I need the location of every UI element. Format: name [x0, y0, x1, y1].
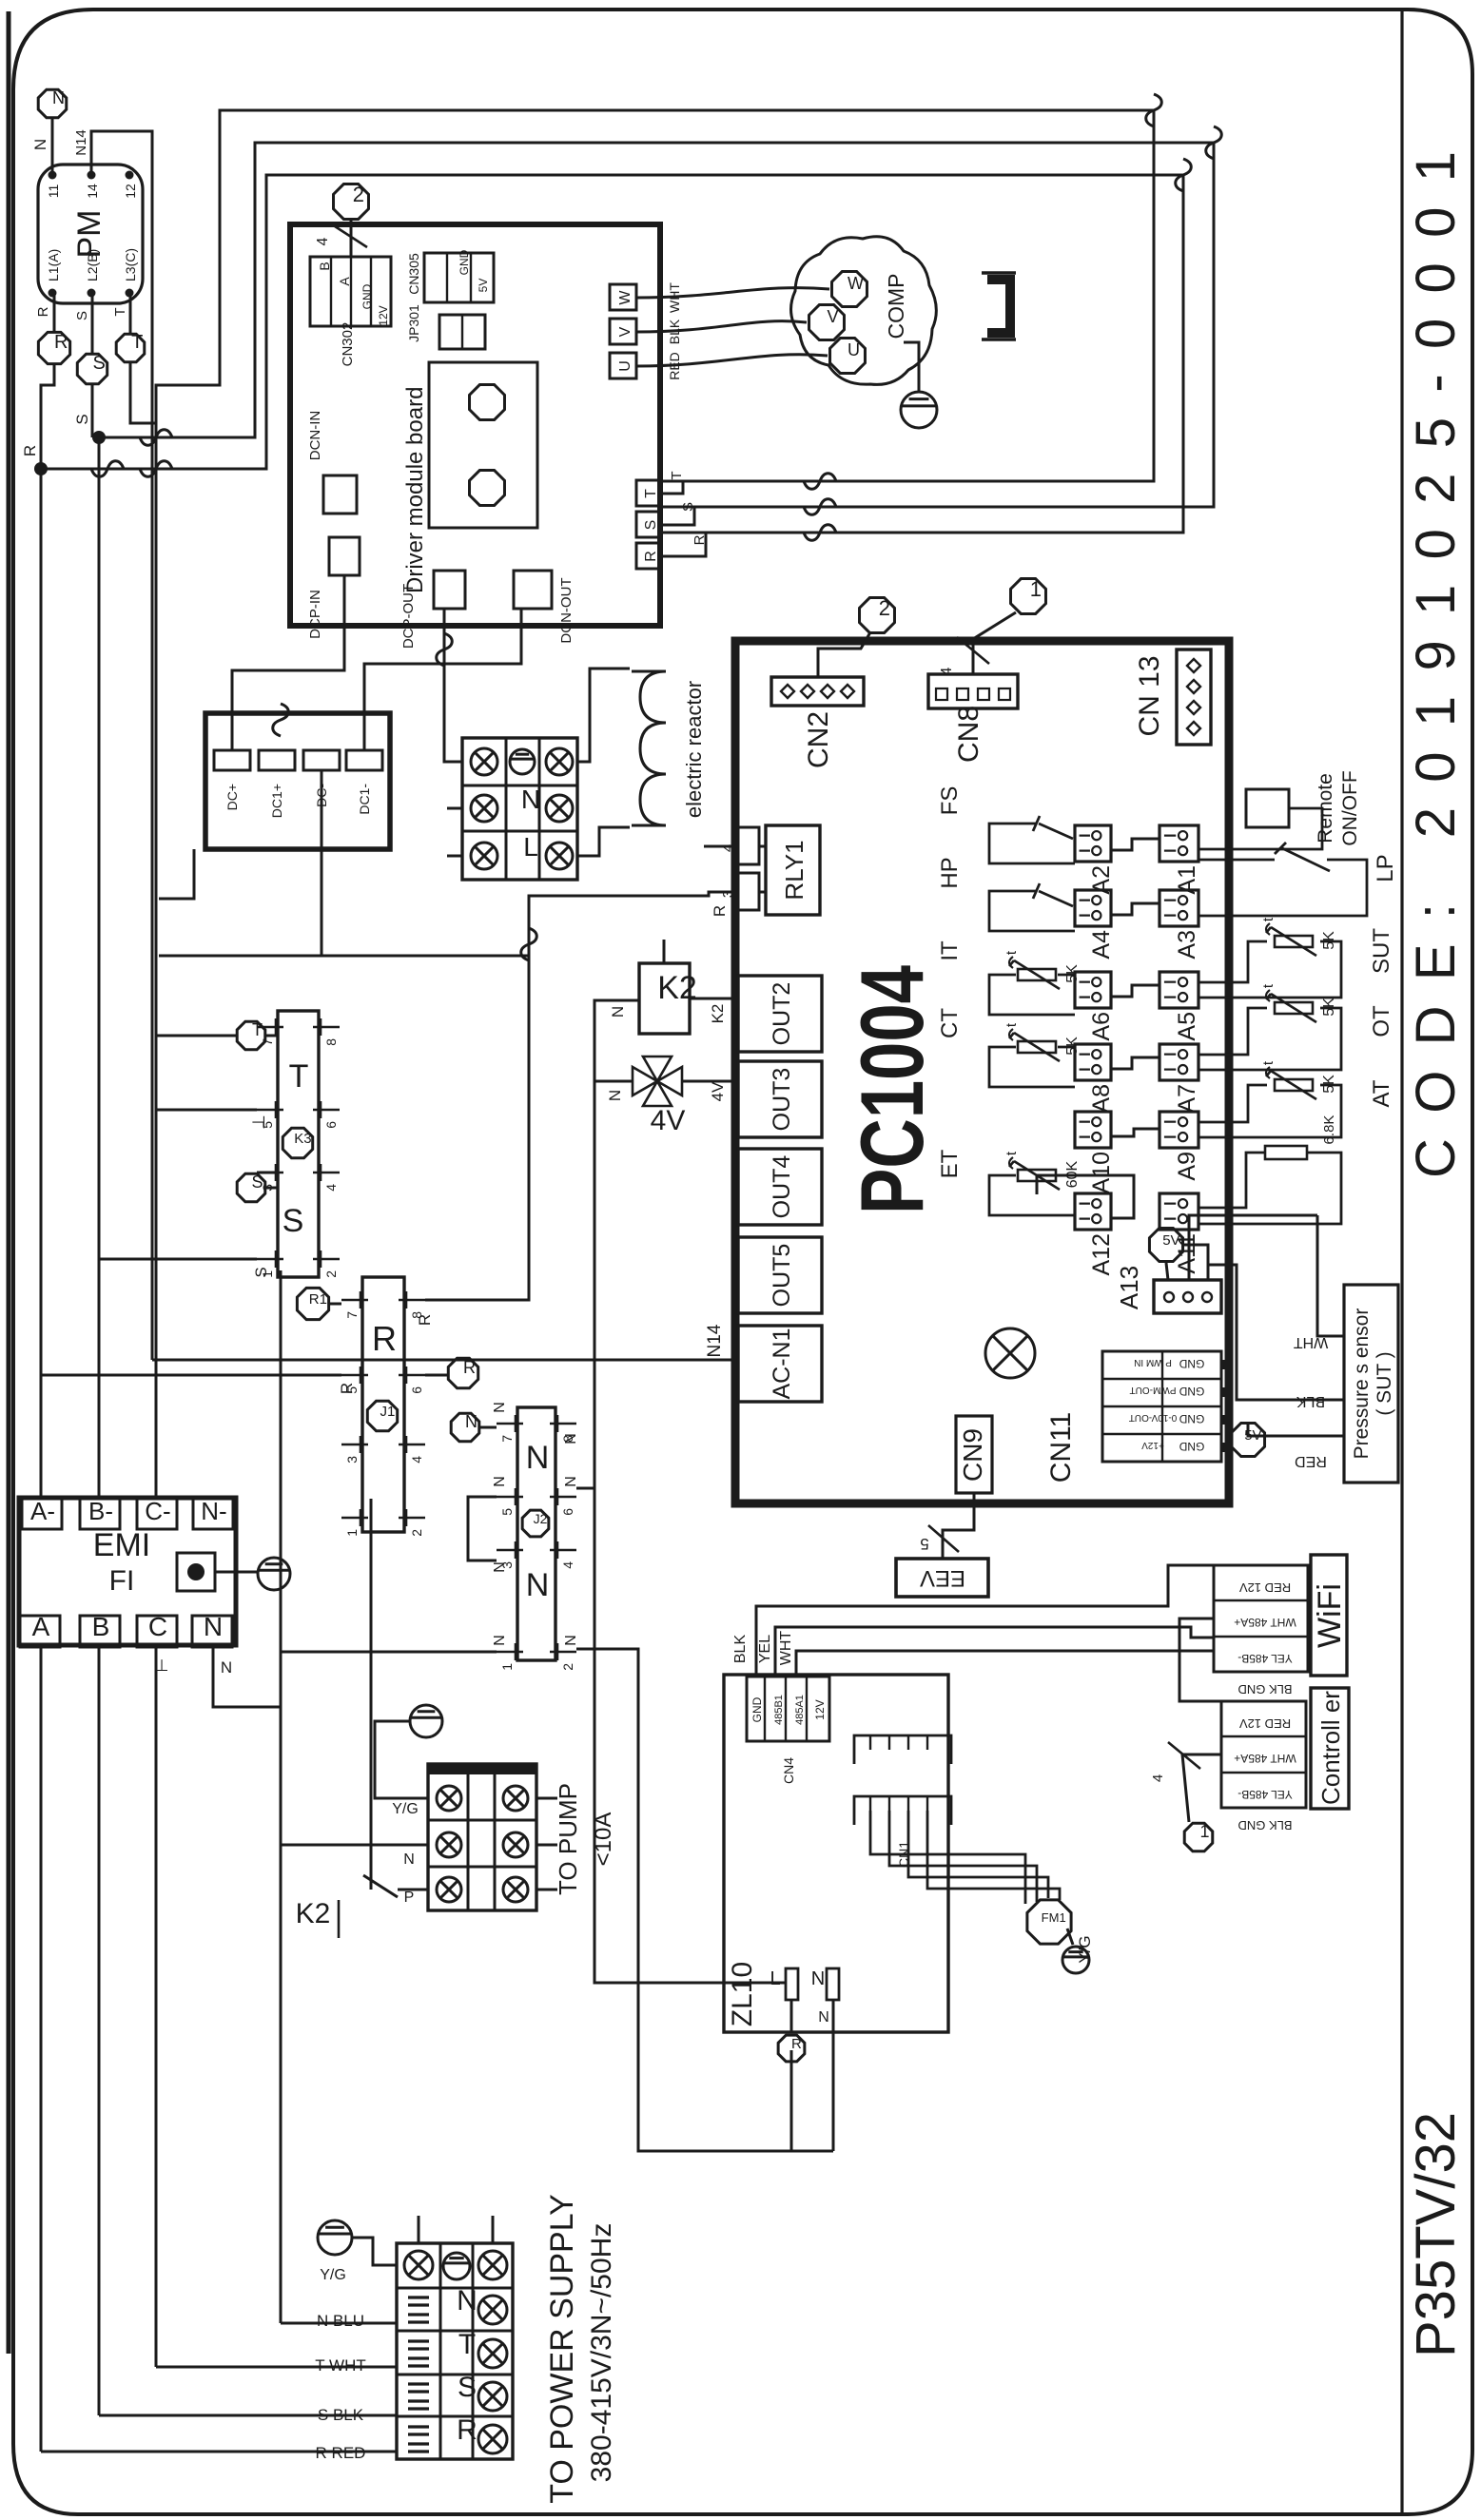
svg-text:⊥: ⊥ — [155, 1657, 169, 1675]
svg-text:4: 4 — [939, 667, 955, 675]
EMI terminal C — [137, 1612, 177, 1647]
wire CN8 to node1 — [939, 612, 1016, 675]
wire S BLK — [99, 2406, 397, 2424]
svg-text:N-: N- — [201, 1497, 226, 1525]
wire R pin5 — [41, 1375, 356, 1394]
terminal DCN-IN — [307, 411, 357, 514]
wire S bus — [73, 384, 106, 2415]
connector CN13 — [1177, 649, 1211, 745]
svg-text:485B1: 485B1 — [773, 1695, 785, 1725]
wire R to pin3 — [599, 892, 738, 917]
svg-text:CN2: CN2 — [803, 711, 834, 768]
svg-text:CN4: CN4 — [781, 1757, 796, 1784]
svg-text:P WM IN: P WM IN — [1134, 1357, 1172, 1367]
label S wire — [680, 502, 696, 512]
svg-text:6: 6 — [560, 1508, 575, 1516]
DC terminal DC1- — [346, 750, 382, 815]
EMI terminal A — [20, 1612, 60, 1647]
svg-text:1: 1 — [1199, 1822, 1209, 1841]
WiFi box — [1311, 1555, 1348, 1676]
svg-text:PWM-OUT: PWM-OUT — [1130, 1385, 1177, 1395]
svg-text:OUT3: OUT3 — [769, 1068, 795, 1132]
wire N14 from PM-14 — [73, 129, 152, 1360]
wire T coil — [266, 1035, 278, 1037]
svg-text:12V: 12V — [377, 305, 390, 325]
wire N pin2 long — [576, 1649, 833, 2151]
svg-text:C-: C- — [145, 1497, 170, 1525]
svg-text:5K: 5K — [1064, 1037, 1081, 1056]
thermistor CT — [937, 1008, 1081, 1087]
wire 4V N side — [594, 1081, 633, 1101]
symbol lamp — [985, 1328, 1035, 1378]
connector A12 — [1075, 1193, 1115, 1275]
svg-text:R: R — [416, 1314, 434, 1326]
text Remote ON/OFF — [1315, 770, 1361, 845]
EMI terminal A- — [22, 1497, 62, 1529]
connector A13 — [1154, 1280, 1221, 1313]
wire N pin5 loop — [468, 1497, 497, 1560]
svg-text:P: P — [404, 1890, 415, 1906]
label WHT — [667, 282, 682, 313]
svg-text:EEV: EEV — [920, 1565, 965, 1591]
label N pump — [403, 1851, 415, 1868]
svg-text:WHT 485A+: WHT 485A+ — [1234, 1752, 1296, 1765]
wire jog on N bus — [273, 704, 289, 736]
svg-text:DCP-IN: DCP-IN — [307, 590, 323, 639]
resistor 6.8K — [1198, 1115, 1341, 1224]
wire T bus — [130, 363, 156, 2367]
svg-text:Y/G: Y/G — [392, 1801, 419, 1817]
svg-text:( SUT ): ( SUT ) — [1374, 1351, 1395, 1415]
svg-text:YEL 485B-: YEL 485B- — [1237, 1652, 1293, 1665]
power module box — [429, 362, 537, 528]
text N relay — [526, 1440, 550, 1476]
output OUT5 — [738, 1237, 822, 1313]
svg-text:B: B — [317, 262, 332, 270]
wire pin5 up — [156, 1109, 257, 1112]
svg-text:WHT: WHT — [1294, 1334, 1329, 1350]
EMI terminal N- — [193, 1497, 233, 1529]
svg-text:RED 12V: RED 12V — [1239, 1716, 1292, 1731]
label CN305 — [406, 253, 421, 295]
wire DC- out — [159, 770, 529, 956]
svg-text:N14: N14 — [73, 129, 89, 156]
svg-text:T: T — [289, 1058, 309, 1095]
label K2 pin — [709, 1004, 727, 1024]
wire N14 down to AC-N1 — [152, 1324, 736, 1360]
svg-text:N: N — [403, 1851, 415, 1868]
label T below EMI — [155, 1657, 169, 1675]
svg-text:CN 13: CN 13 — [1134, 655, 1165, 736]
wire W to COMP — [636, 288, 829, 298]
connector A5 — [1159, 972, 1200, 1041]
svg-text:S: S — [93, 353, 106, 374]
svg-text:CN8: CN8 — [953, 706, 984, 763]
title strip divider — [1400, 10, 1403, 2513]
svg-text:L: L — [770, 1968, 780, 1989]
label A13 — [1115, 1266, 1143, 1309]
svg-text:6: 6 — [409, 1386, 424, 1394]
label CN2 — [803, 711, 834, 768]
svg-text:L: L — [523, 832, 538, 862]
octagon J1 — [367, 1401, 397, 1430]
svg-text:R RED: R RED — [316, 2444, 366, 2462]
connector CN2 — [771, 677, 864, 706]
svg-text:S: S — [283, 1203, 304, 1239]
svg-text:A13: A13 — [1115, 1266, 1143, 1309]
node 2 octagon cn2 — [860, 596, 895, 632]
COMP ground wire — [904, 342, 919, 392]
svg-text:DC1+: DC1+ — [269, 784, 284, 818]
svg-text:W: W — [848, 274, 864, 293]
wire DC1- feed — [364, 609, 521, 750]
svg-text:3: 3 — [344, 1456, 360, 1464]
svg-text:485A1: 485A1 — [794, 1695, 806, 1725]
octagon K3 — [283, 1128, 312, 1157]
label CN4 — [781, 1757, 796, 1784]
svg-text:PC1004: PC1004 — [842, 965, 942, 1214]
svg-text:P35TV/32: P35TV/32 — [1405, 2112, 1467, 2357]
node R octagon zl — [778, 2035, 805, 2062]
terminal block L N — [462, 738, 577, 880]
svg-text:ON/OFF: ON/OFF — [1339, 770, 1361, 845]
COMP pin V — [809, 305, 845, 340]
wire EMI cap to ground — [215, 1571, 258, 1574]
output OUT3 — [738, 1061, 822, 1137]
text 380-415V 3N 50Hz — [586, 2223, 617, 2483]
svg-text:DC+: DC+ — [224, 784, 240, 810]
svg-text:R: R — [372, 1319, 397, 1358]
connector A6 — [1075, 972, 1115, 1041]
svg-text:CT: CT — [937, 1008, 963, 1038]
wire A8 row link — [1111, 1057, 1159, 1069]
power block labels — [443, 2253, 477, 2446]
connector CN9 — [956, 1416, 992, 1493]
wire BLK 485 — [756, 1565, 1214, 1677]
svg-text:OT: OT — [1369, 1005, 1394, 1037]
svg-text:DCP-OUT: DCP-OUT — [400, 584, 417, 649]
svg-text:RED 12V: RED 12V — [1239, 1580, 1292, 1595]
label CN1 — [896, 1841, 911, 1868]
svg-text:FI: FI — [109, 1565, 135, 1597]
svg-text:R: R — [643, 551, 659, 562]
thermistor IT — [937, 940, 1081, 1015]
DC terminal DC- — [303, 750, 340, 807]
svg-text:EMI: EMI — [93, 1527, 150, 1563]
svg-text:COMP: COMP — [884, 274, 908, 339]
wire CN1 FM1 c — [908, 1811, 1048, 1898]
connector CN1 — [854, 1796, 951, 1825]
terminal block TO POWER SUPPLY — [397, 2243, 513, 2459]
svg-text:N: N — [521, 785, 540, 814]
terminal S drv — [636, 512, 661, 537]
wire A13 pins — [1166, 1215, 1317, 1280]
text TO POWER SUPPLY — [544, 2194, 580, 2504]
labels N around — [492, 1402, 579, 1646]
title text P35TV/32 — [1405, 2112, 1467, 2357]
svg-text:12: 12 — [123, 184, 138, 199]
svg-text:N: N — [204, 1612, 223, 1641]
svg-text:5: 5 — [920, 1535, 928, 1553]
svg-text:S: S — [458, 2372, 477, 2403]
svg-text:R: R — [21, 445, 39, 456]
svg-text:RED: RED — [1295, 1453, 1327, 1469]
EMI filter box — [19, 1498, 236, 1645]
terminal DCP-IN — [307, 537, 360, 639]
pressure sensor box — [1344, 1285, 1398, 1483]
wire K2 N side — [594, 1000, 786, 1983]
wire A4 row link — [1111, 903, 1159, 915]
label R pin8 — [416, 1314, 434, 1326]
svg-text:R: R — [711, 905, 729, 917]
svg-text:N: N — [31, 139, 49, 150]
LN screws — [471, 748, 573, 869]
EMI cap box — [177, 1553, 215, 1591]
svg-text:GND: GND — [1179, 1440, 1204, 1453]
svg-text:R: R — [54, 332, 68, 353]
svg-text:S: S — [74, 311, 90, 320]
ground symbol pump — [410, 1705, 442, 1737]
svg-text:CN305: CN305 — [406, 253, 421, 295]
label Y/G pump — [392, 1801, 419, 1817]
label JP301 — [406, 304, 421, 342]
clamp mark — [408, 2427, 429, 2452]
svg-text:DCN-IN: DCN-IN — [307, 411, 323, 461]
svg-text:4: 4 — [323, 1184, 339, 1192]
relay K2 — [639, 963, 697, 1034]
wire N pin6 link — [576, 1487, 594, 1490]
EMI terminal B- — [80, 1497, 120, 1529]
DC terminal DC+ — [214, 750, 250, 810]
svg-text:A6: A6 — [1088, 1012, 1115, 1041]
svg-text:N: N — [526, 1440, 550, 1476]
block CN11 — [1102, 1351, 1231, 1462]
svg-text:S: S — [252, 1267, 270, 1277]
switch FS — [937, 786, 1075, 863]
svg-text:L2(B): L2(B) — [85, 249, 100, 281]
output OUT4 — [738, 1149, 822, 1225]
pump stubs — [536, 1798, 557, 1890]
svg-text:GND: GND — [750, 1696, 764, 1722]
wire WHT sensor — [1294, 1215, 1344, 1350]
svg-text:4: 4 — [560, 1561, 575, 1569]
wire rly pins — [704, 846, 766, 892]
wire A10 A9 — [1111, 1129, 1159, 1136]
remote switch box — [1198, 789, 1322, 849]
svg-text:0-10V-OUT: 0-10V-OUT — [1129, 1412, 1178, 1423]
svg-text:2: 2 — [879, 596, 890, 620]
svg-text:BLK: BLK — [1296, 1393, 1326, 1409]
wire CN2 to node2 — [818, 632, 870, 677]
octagon T — [116, 332, 145, 362]
wire S loop — [99, 126, 1221, 514]
svg-text:U: U — [848, 340, 860, 359]
svg-text:N BLU: N BLU — [317, 2312, 364, 2330]
svg-text:T: T — [252, 1020, 263, 1039]
terminal U — [610, 353, 636, 378]
pin 3 rly — [720, 873, 759, 910]
svg-text:S BLK: S BLK — [318, 2406, 364, 2424]
label CN302 — [340, 322, 356, 367]
wire BLK sensor — [1208, 1245, 1344, 1409]
wire S drv — [661, 507, 694, 525]
label BLK — [667, 319, 682, 344]
svg-text:N: N — [492, 1402, 508, 1413]
PM pins L1 L2 L3 — [46, 248, 138, 298]
connector A3 — [1159, 890, 1200, 960]
PM pins 11 14 12 — [46, 171, 138, 199]
wire V to COMP — [636, 321, 807, 332]
svg-text:HP: HP — [937, 857, 963, 888]
node 2 octagon drv — [334, 183, 369, 219]
electric reactor coil — [632, 671, 666, 825]
svg-text:T: T — [669, 471, 685, 479]
svg-text:R: R — [35, 306, 51, 317]
svg-text:K3: K3 — [294, 1131, 311, 1147]
svg-text:2: 2 — [323, 1270, 339, 1278]
svg-text:R: R — [791, 2036, 802, 2052]
svg-text:A: A — [32, 1612, 50, 1641]
label 4V pin — [709, 1081, 727, 1101]
node N circle — [38, 88, 67, 118]
connector CN4 strip — [747, 1677, 829, 1741]
svg-text:JP301: JP301 — [406, 304, 421, 342]
R pins — [341, 1291, 425, 1537]
svg-text:FM1: FM1 — [1042, 1910, 1066, 1925]
wire wifi down — [1179, 1619, 1237, 1701]
clamp mark — [408, 2384, 429, 2409]
wire U to COMP — [636, 355, 828, 366]
T S pins — [257, 1018, 340, 1278]
output OUT2 — [738, 976, 822, 1052]
svg-text:+12V: +12V — [1141, 1440, 1164, 1450]
wire node2 to CN302 — [315, 221, 367, 257]
svg-text:RLY1: RLY1 — [780, 840, 809, 900]
label CN11 — [1045, 1412, 1077, 1483]
label CN13 — [1134, 655, 1165, 736]
svg-text:TO POWER SUPPLY: TO POWER SUPPLY — [544, 2194, 580, 2504]
wire DC corner — [159, 849, 194, 899]
terminal block TO PUMP — [428, 1764, 536, 1910]
text Driver module board — [402, 387, 428, 593]
node 5V octagon 2 — [1231, 1423, 1264, 1456]
label gnd T5 — [249, 1115, 268, 1130]
relay RLY1 — [766, 825, 820, 915]
label BLK GND wifi — [1237, 1682, 1292, 1696]
svg-text:N: N — [563, 1433, 579, 1444]
octagon R — [38, 332, 69, 364]
svg-text:7: 7 — [499, 1435, 515, 1443]
svg-text:8: 8 — [323, 1038, 339, 1046]
phase monitor PM box — [38, 165, 143, 303]
label WHT zl — [778, 1631, 794, 1666]
wire fuse N out — [818, 2000, 833, 2151]
wire S coil — [257, 1173, 278, 1188]
svg-text:IT: IT — [937, 940, 963, 961]
label RED — [667, 352, 682, 380]
output AC-N1 — [738, 1326, 822, 1402]
octagon R1 — [297, 1288, 328, 1319]
svg-text:WHT: WHT — [778, 1631, 794, 1666]
wire ctrl 485 — [1150, 1742, 1221, 1822]
ground symbol EMI — [258, 1558, 290, 1590]
svg-text:A4: A4 — [1088, 930, 1115, 960]
clamp mark — [408, 2341, 429, 2366]
controller cell box — [1221, 1701, 1306, 1808]
svg-text:4V: 4V — [709, 1081, 727, 1101]
connector CN305 — [424, 249, 494, 302]
N pins — [497, 1415, 576, 1671]
connector A8 — [1075, 1044, 1115, 1114]
label 4V — [651, 1105, 686, 1136]
svg-text:V: V — [617, 326, 633, 337]
svg-text:electric reactor: electric reactor — [682, 681, 706, 818]
svg-text:T: T — [131, 332, 143, 353]
svg-text:R: R — [457, 2414, 477, 2446]
svg-text:A9: A9 — [1174, 1152, 1200, 1181]
svg-text:N: N — [563, 1476, 579, 1487]
svg-text:DC1-: DC1- — [357, 784, 372, 815]
svg-text:T: T — [643, 489, 659, 498]
COMP ground symbol — [901, 392, 937, 428]
svg-text:AT: AT — [1369, 1079, 1394, 1107]
wire N bus — [213, 1270, 281, 2323]
svg-text:<10A: <10A — [591, 1812, 616, 1867]
title text CODE: 20191025-0001 — [1405, 151, 1467, 1178]
LN labels — [510, 749, 540, 862]
terminal screws — [404, 2251, 507, 2453]
switch LP — [1198, 843, 1398, 916]
svg-text:N: N — [221, 1658, 232, 1677]
terminal W — [610, 284, 636, 310]
svg-text:A5: A5 — [1174, 1012, 1200, 1041]
board ZL10 — [724, 1675, 948, 2032]
svg-text:N: N — [457, 2285, 477, 2316]
svg-text:5V: 5V — [1244, 1427, 1261, 1444]
svg-text:N: N — [465, 1412, 477, 1431]
label N below EMI — [221, 1658, 232, 1677]
node 1 octagon — [1011, 577, 1046, 613]
compressor COMP — [791, 237, 937, 385]
svg-text:6.8K: 6.8K — [1321, 1115, 1337, 1145]
connector A11 — [1159, 1193, 1200, 1274]
clamp mark — [408, 2297, 429, 2322]
wire Y/G power — [320, 2238, 397, 2283]
svg-text:5: 5 — [499, 1508, 515, 1516]
connector A9 — [1159, 1112, 1200, 1181]
svg-text:C: C — [148, 1612, 167, 1641]
octagon R low — [448, 1358, 477, 1388]
svg-text:GND: GND — [1179, 1412, 1204, 1425]
svg-text:T WHT: T WHT — [315, 2356, 366, 2375]
svg-text:BLK GND: BLK GND — [1237, 1682, 1292, 1696]
svg-text:N: N — [52, 88, 65, 107]
label BLK zl — [732, 1635, 749, 1664]
svg-text:N: N — [492, 1635, 508, 1646]
svg-text:5K: 5K — [1064, 964, 1081, 983]
node 5V octagon — [1149, 1228, 1182, 1261]
wire 4V to board — [682, 1080, 738, 1083]
svg-text:7: 7 — [344, 1311, 360, 1319]
svg-text:Pressure s ensor: Pressure s ensor — [1351, 1308, 1373, 1460]
svg-text:6: 6 — [323, 1121, 339, 1129]
wire R bus — [21, 365, 54, 2452]
label T wire — [669, 471, 685, 479]
comb connector — [854, 1735, 951, 1764]
octagon J2 — [522, 1510, 549, 1537]
svg-text:T: T — [458, 2329, 476, 2360]
wire T loop — [156, 94, 1161, 489]
